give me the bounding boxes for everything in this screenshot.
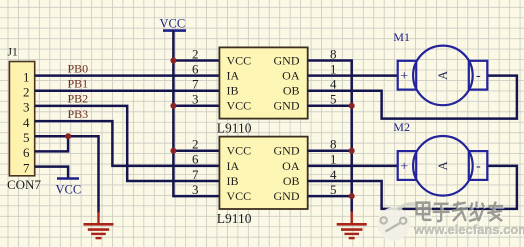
- IC U1 label L9110: [217, 121, 252, 136]
- svg-text:J1: J1: [8, 47, 18, 59]
- svg-text:1: 1: [23, 69, 30, 84]
- svg-text:+: +: [400, 160, 408, 175]
- ground symbol left: [84, 212, 114, 239]
- net label PB1: [68, 77, 89, 91]
- svg-text:2: 2: [192, 137, 199, 152]
- motor M1 label: [393, 30, 410, 44]
- svg-text:M2: M2: [393, 120, 410, 134]
- IC U2 L9110 body: [219, 137, 307, 209]
- svg-text:IA: IA: [227, 159, 240, 173]
- svg-text:6: 6: [23, 145, 30, 160]
- junction dot VCC rail U1.2: [170, 58, 176, 64]
- svg-text:4: 4: [330, 77, 337, 92]
- svg-text:PB3: PB3: [68, 107, 89, 121]
- svg-text:7: 7: [23, 160, 30, 175]
- wire J1.6 up to J1.5 node: [35, 136, 68, 151]
- svg-text:M1: M1: [393, 30, 410, 44]
- svg-text:GND: GND: [274, 144, 300, 158]
- svg-text:2: 2: [23, 85, 30, 100]
- connector J1 pin numbers 1-7: [23, 69, 30, 175]
- junction dot gnd rail U2.5: [349, 193, 355, 199]
- net label PB2: [68, 92, 89, 106]
- U1 right pin numbers 8 1 4 5: [330, 46, 337, 106]
- svg-text:OB: OB: [283, 174, 300, 188]
- U1 left pin names: [227, 53, 252, 112]
- U1 right pin names: [274, 53, 300, 112]
- svg-text:3: 3: [192, 92, 199, 107]
- svg-text:3: 3: [192, 182, 199, 197]
- motor M2 minus terminal: [469, 151, 488, 180]
- svg-text:7: 7: [192, 167, 199, 182]
- svg-text:VCC: VCC: [227, 144, 252, 158]
- svg-text:2: 2: [192, 46, 199, 61]
- junction dot gnd rail U2.8: [349, 148, 355, 154]
- wire PB3 J1.4 to U2.6: [35, 121, 220, 166]
- svg-text:+: +: [400, 69, 408, 84]
- svg-text:VCC: VCC: [227, 189, 252, 203]
- IC U2 label L9110: [217, 211, 252, 226]
- svg-text:VCC: VCC: [56, 183, 82, 197]
- U2 left pin numbers 2 6 7 3: [192, 137, 199, 197]
- svg-text:5: 5: [330, 182, 337, 197]
- power symbol VCC top: [160, 17, 187, 31]
- wire U1.5 GND to rail: [308, 105, 352, 108]
- svg-text:6: 6: [192, 152, 199, 167]
- connector J1 body: [9, 62, 34, 176]
- net label PB0: [68, 61, 89, 75]
- wire U2.4 OB loop to M2 minus: [308, 166, 517, 209]
- svg-text:IA: IA: [227, 69, 240, 83]
- svg-text:4: 4: [23, 115, 30, 130]
- motor M2 circle: [413, 136, 473, 196]
- svg-text:CON7: CON7: [7, 177, 41, 192]
- svg-text:A: A: [436, 161, 450, 170]
- U2 right pin numbers 8 1 4 5: [330, 137, 337, 197]
- connector J1 value label CON7: [7, 177, 41, 192]
- svg-text:3: 3: [23, 100, 30, 115]
- junction dot gnd rail U1.5: [349, 103, 355, 109]
- svg-text:-: -: [476, 69, 481, 84]
- svg-text:PB2: PB2: [68, 92, 89, 106]
- wire U2.5 GND to rail: [308, 195, 352, 198]
- junction dot J1.5 node: [65, 133, 71, 139]
- svg-text:5: 5: [330, 92, 337, 107]
- U1 left pin numbers 2 6 7 3: [192, 46, 199, 106]
- svg-text:1: 1: [330, 61, 337, 76]
- wire VCC rail vertical into U2 pin3: [173, 31, 219, 197]
- junction dot VCC rail U1.3: [170, 103, 176, 109]
- wire U1.4 OB loop to M1 minus: [308, 76, 517, 119]
- svg-text:GND: GND: [274, 189, 300, 203]
- svg-text:-: -: [476, 159, 481, 174]
- svg-text:IB: IB: [227, 174, 239, 188]
- svg-text:VCC: VCC: [227, 53, 252, 67]
- svg-text:4: 4: [330, 167, 337, 182]
- ground symbol right: [337, 212, 367, 239]
- svg-text:VCC: VCC: [160, 17, 186, 31]
- svg-text:GND: GND: [274, 99, 300, 113]
- motor M2 label: [393, 120, 410, 134]
- motor M1 plus terminal: [398, 61, 417, 90]
- watermark logo circle: [377, 204, 417, 241]
- svg-text:8: 8: [330, 137, 337, 152]
- wire U1.8 GND down right rail: [308, 61, 352, 212]
- svg-text:OB: OB: [283, 84, 300, 98]
- wire VCC rail to U1 pin3: [173, 105, 219, 108]
- svg-text:L9110: L9110: [217, 211, 252, 226]
- svg-text:GND: GND: [274, 53, 300, 67]
- power symbol VCC bottom left: [56, 179, 82, 197]
- wire J1.5 to ground: [35, 136, 99, 213]
- watermark url text: [413, 222, 524, 238]
- svg-text:OA: OA: [282, 69, 300, 83]
- svg-text:PB0: PB0: [68, 61, 89, 75]
- svg-text:PB1: PB1: [68, 77, 89, 91]
- svg-text:1: 1: [330, 152, 337, 167]
- svg-text:7: 7: [192, 77, 199, 92]
- svg-text:www.elecfans.com: www.elecfans.com: [413, 222, 524, 237]
- U2 right pin names: [274, 144, 300, 203]
- wire PB0 J1.1 to U1.6: [35, 74, 220, 77]
- connector J1 designator label: [8, 47, 18, 59]
- junction dot VCC rail U2.2: [170, 148, 176, 154]
- svg-text:8: 8: [330, 46, 337, 61]
- IC U1 L9110 body: [219, 47, 307, 118]
- wire U2.1 OA to M2 plus: [308, 165, 398, 168]
- wire U2.8 GND to rail: [308, 150, 352, 153]
- motor M1 circle: [413, 46, 473, 106]
- wire J1.7 to VCC symbol: [35, 167, 68, 178]
- motor M2 plus terminal: [398, 151, 417, 180]
- svg-text:A: A: [436, 71, 450, 80]
- svg-text:OA: OA: [282, 159, 300, 173]
- motor M1 minus terminal: [469, 61, 488, 90]
- wire PB1 J1.2 to U1.7: [35, 89, 220, 92]
- wire U1.1 OA to M1 plus: [308, 74, 398, 77]
- net label PB3: [68, 107, 89, 121]
- wire VCC rail to U1 pin2: [173, 59, 219, 62]
- svg-text:VCC: VCC: [227, 99, 252, 113]
- svg-text:5: 5: [23, 130, 30, 145]
- wire VCC rail to U2 pin2: [173, 150, 219, 153]
- svg-text:IB: IB: [227, 84, 239, 98]
- U2 left pin names: [227, 144, 252, 203]
- svg-text:6: 6: [192, 61, 199, 76]
- watermark chinese text dianzifashaoyou: [418, 203, 505, 223]
- svg-text:L9110: L9110: [217, 121, 252, 136]
- wire PB2 J1.3 to U2.7: [35, 106, 220, 181]
